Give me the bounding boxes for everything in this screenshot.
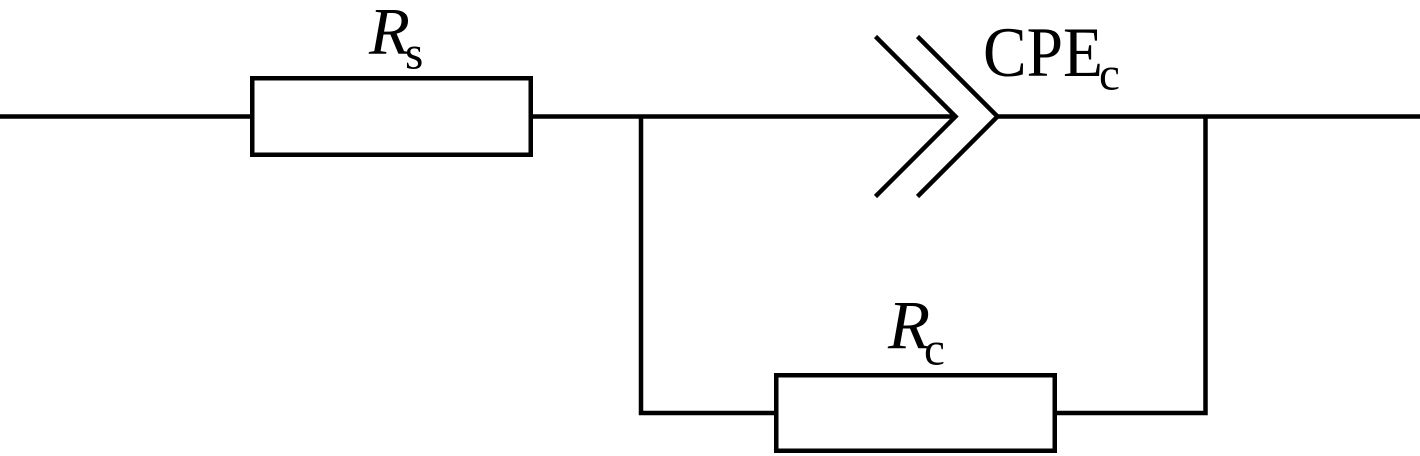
wire right lead — [1206, 114, 1420, 119]
svg-text:c: c — [924, 324, 945, 376]
wire right branch down and bottom-right — [1055, 117, 1206, 414]
wire node A to CPE left apex — [641, 114, 956, 119]
wire CPE right apex to node B — [998, 114, 1206, 119]
wire Rs to node A — [531, 114, 641, 119]
CPE U1 chevron 1 — [876, 37, 956, 197]
resistor Rc body — [776, 375, 1055, 451]
svg-text:c: c — [1099, 49, 1120, 101]
wire left lead to Rs — [0, 114, 252, 119]
svg-text:R: R — [368, 0, 410, 69]
svg-text:CPE: CPE — [983, 14, 1103, 92]
svg-text:s: s — [405, 28, 423, 80]
wire left branch down and bottom-left — [641, 117, 776, 414]
resistor Rs body — [252, 78, 531, 155]
CPE U1 chevron 2 — [918, 37, 998, 197]
